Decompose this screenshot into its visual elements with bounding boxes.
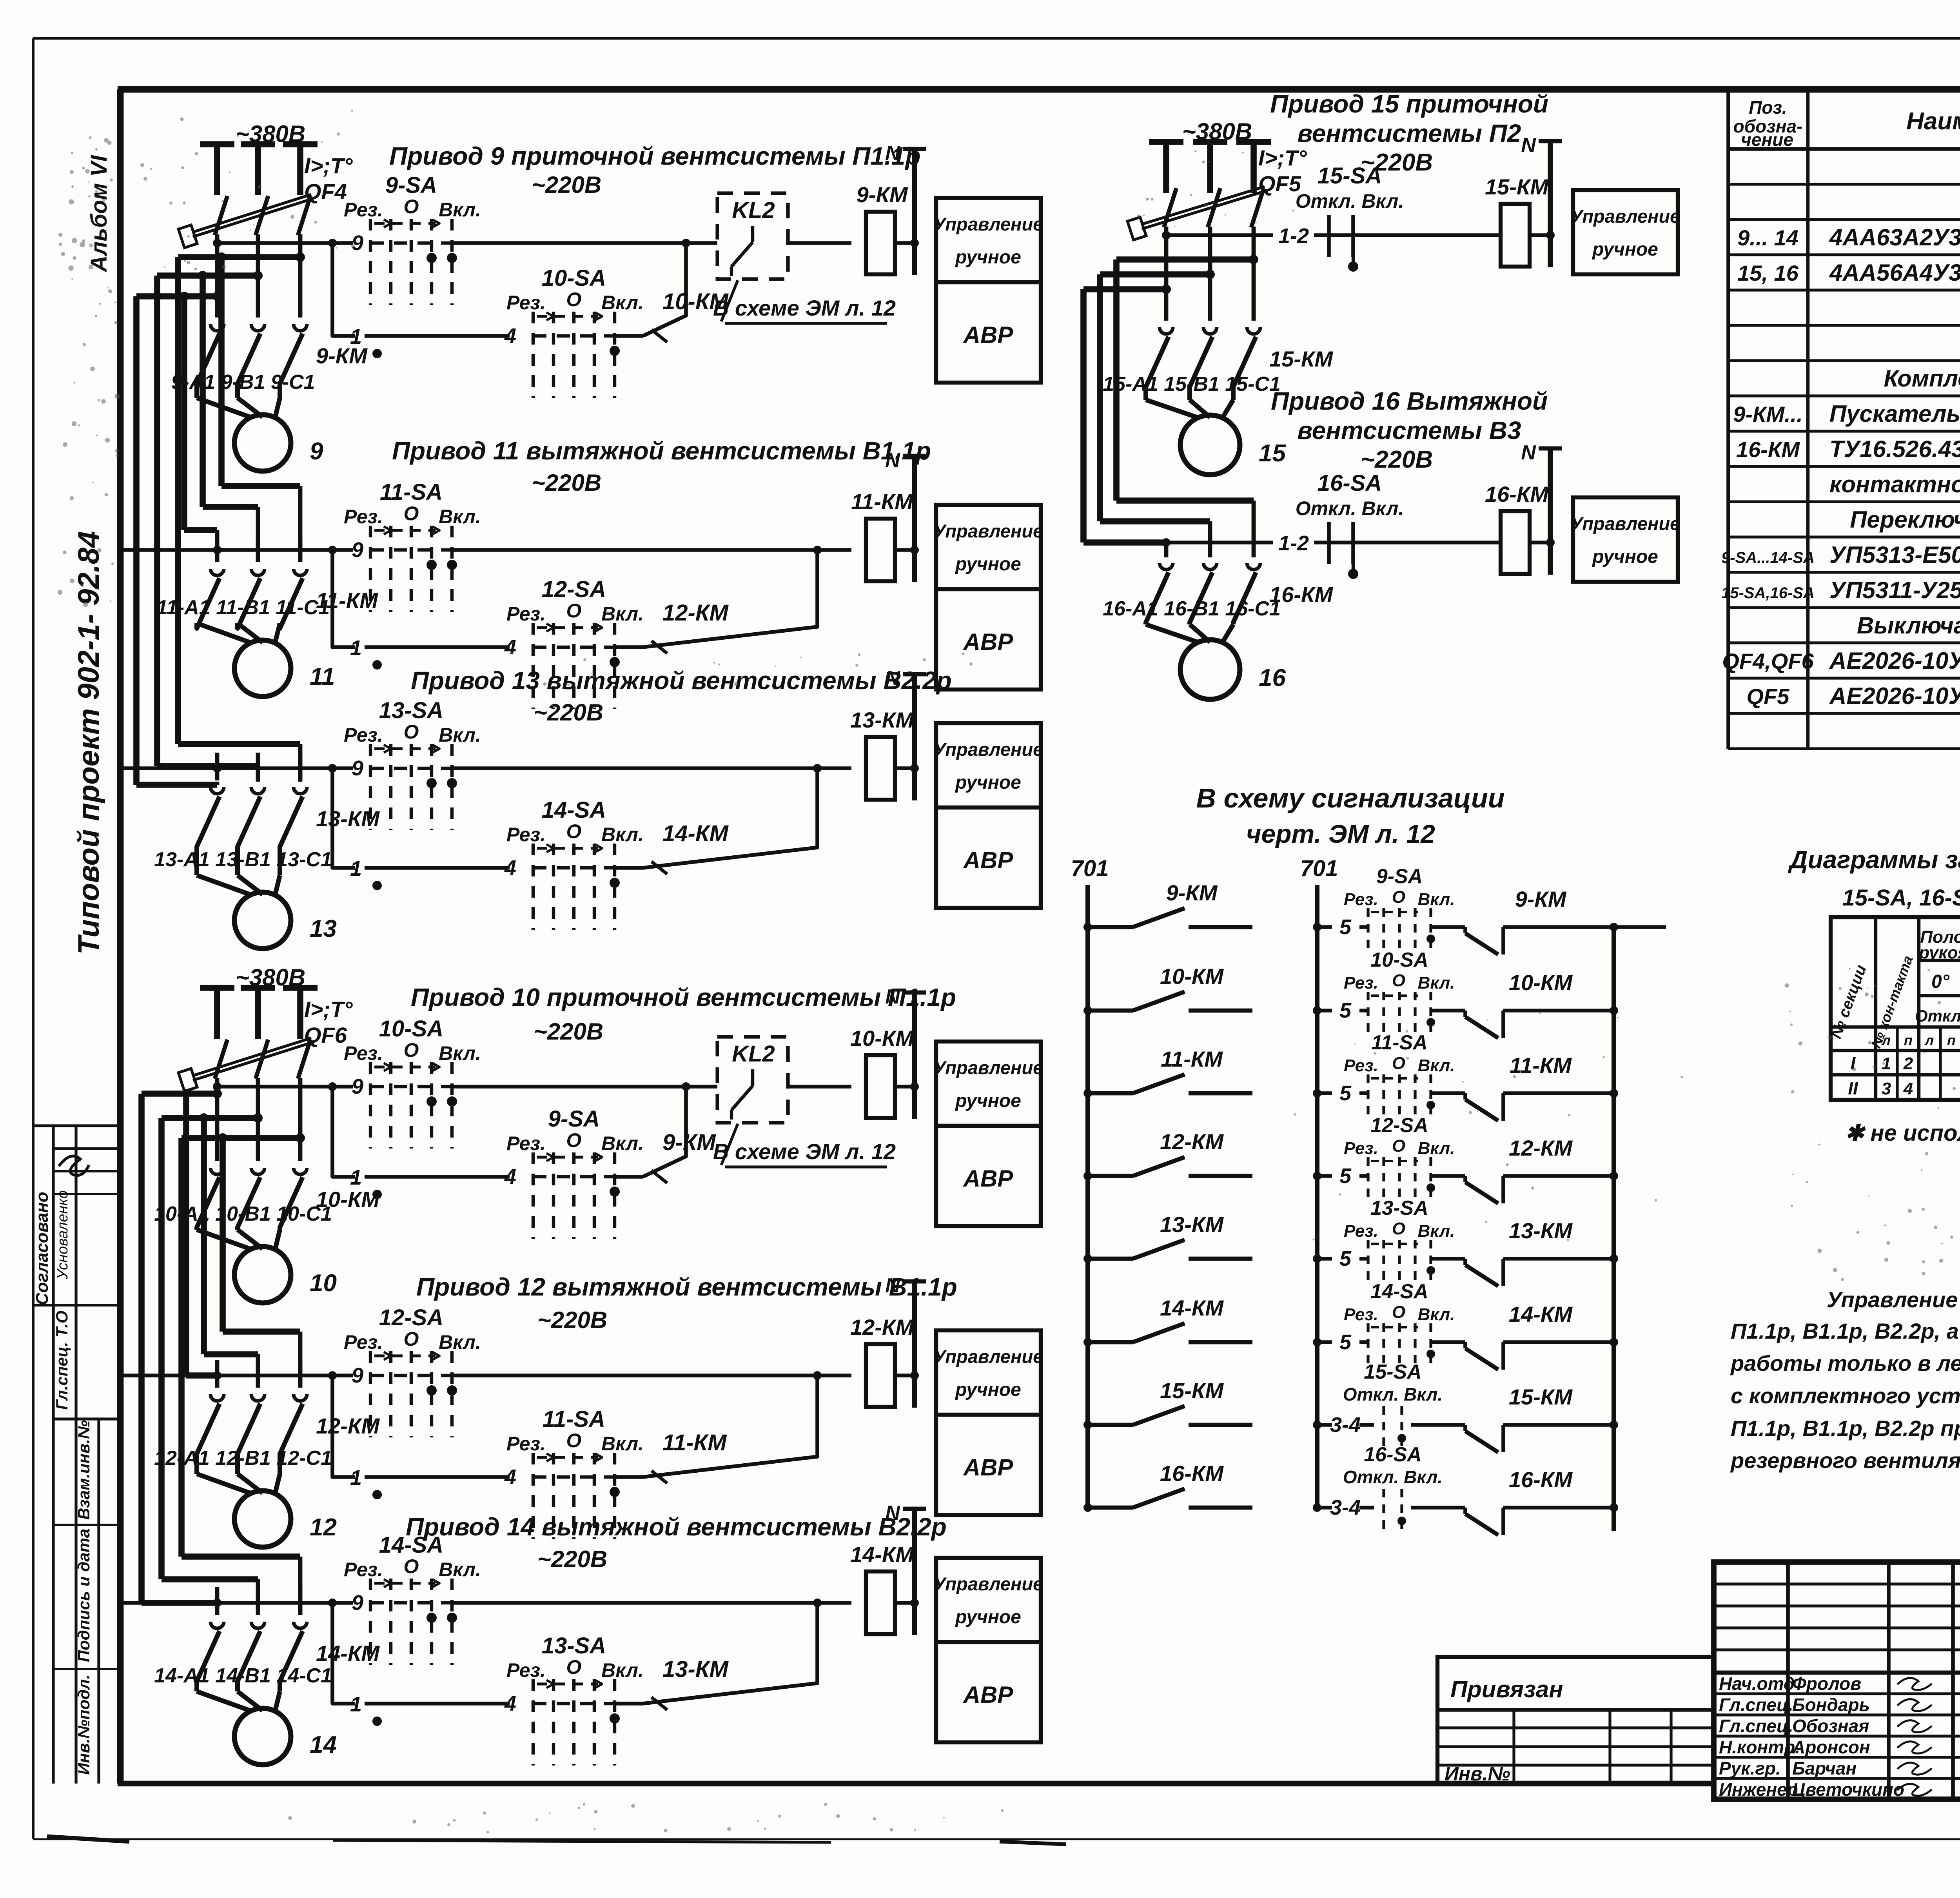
svg-text:Рез.: Рез. <box>506 292 546 314</box>
neutral bus N <box>885 667 926 800</box>
diagram table 15-SA 16-SA <box>1828 917 1960 1100</box>
svg-text:15-SA,16-SA: 15-SA,16-SA <box>1721 584 1815 602</box>
svg-text:9-КМ...: 9-КМ... <box>1733 402 1803 426</box>
wire <box>256 753 260 780</box>
svg-text:9: 9 <box>352 1364 363 1387</box>
wire <box>452 766 851 770</box>
wire <box>452 1601 851 1605</box>
svg-text:9-КМ: 9-КМ <box>662 1130 716 1155</box>
svg-text:11-КМ: 11-КМ <box>1161 1047 1223 1071</box>
contactor 12-КМ main contacts <box>197 1394 380 1474</box>
svg-text:Управление: Управление <box>933 1057 1044 1078</box>
svg-text:9: 9 <box>352 538 363 562</box>
svg-text:5: 5 <box>1339 1247 1352 1270</box>
svg-text:QF5: QF5 <box>1747 684 1790 709</box>
motor 10 <box>197 1230 337 1303</box>
wire <box>452 548 851 552</box>
svg-text:Цветочкино: Цветочкино <box>1792 1779 1904 1800</box>
svg-text:Согласовано: Согласовано <box>33 1192 52 1305</box>
reserve bus bundle drives 10-12-14 <box>142 1089 305 1615</box>
control mode box drive 15 <box>1570 190 1681 274</box>
svg-text:Откл. Вкл.: Откл. Вкл. <box>1343 1467 1443 1487</box>
svg-text:Управление: Управление <box>933 521 1044 541</box>
svg-text:Рез.: Рез. <box>506 1433 546 1455</box>
signal rung 9 <box>1313 915 1352 939</box>
svg-text:Привод 9 приточной вентсистемы: Привод 9 приточной вентсистемы П1.1р <box>389 142 920 170</box>
svg-text:I>;T°: I>;T° <box>304 997 353 1022</box>
neutral bus N <box>1521 134 1562 267</box>
svg-text:Вкл.: Вкл. <box>601 292 644 314</box>
svg-text:Вкл.: Вкл. <box>1418 890 1455 909</box>
svg-text:Альбом VI: Альбом VI <box>86 154 112 272</box>
motor 13 <box>197 875 337 949</box>
note В схеме ЭМ л.12 <box>713 280 896 323</box>
svg-text:15-КМ: 15-КМ <box>1485 174 1549 199</box>
svg-text:Вкл.: Вкл. <box>439 199 481 221</box>
svg-text:ручное: ручное <box>955 772 1021 793</box>
wire <box>895 1601 915 1605</box>
svg-text:N: N <box>885 1502 900 1524</box>
svg-text:~220В: ~220В <box>532 470 601 496</box>
signal contact 11-КМ <box>1083 1047 1252 1098</box>
svg-text:Рез.: Рез. <box>1344 1221 1378 1241</box>
svg-text:12-КМ: 12-КМ <box>662 600 729 626</box>
svg-text:11-А1 11-В1 11-С1: 11-А1 11-В1 11-С1 <box>156 596 330 619</box>
contactor 9-КМ main contacts <box>197 324 368 398</box>
wire <box>1252 227 1256 321</box>
svg-text:✱ не используется: ✱ не используется <box>1845 1120 1960 1146</box>
control mode boxes drive 9 <box>933 198 1044 383</box>
svg-text:Привязан: Привязан <box>1450 1676 1563 1702</box>
svg-text:Управление: Управление <box>1570 206 1681 227</box>
signal selector 13-SA <box>1344 1197 1455 1286</box>
svg-text:Рез.: Рез. <box>1344 973 1378 993</box>
signal selector 10-SA <box>1344 949 1455 1038</box>
svg-text:4: 4 <box>504 635 516 659</box>
signal aux contact 10-КМ <box>1450 970 1618 1038</box>
svg-text:N: N <box>1521 134 1536 157</box>
svg-text:Управление: Управление <box>933 1573 1044 1594</box>
svg-text:В схему сигнализации: В схему сигнализации <box>1196 783 1504 813</box>
scan artifact strokes <box>47 1836 1066 1844</box>
svg-text:15-КМ: 15-КМ <box>1160 1378 1224 1403</box>
svg-text:П1.1р, В1.1р, В2.2р предусмот: П1.1р, В1.1р, В2.2р предусмотрено автома… <box>1731 1416 1960 1441</box>
svg-text:12-КМ: 12-КМ <box>316 1414 380 1438</box>
wire <box>215 534 220 562</box>
contactor coil 10-КМ <box>850 1026 914 1118</box>
svg-text:О: О <box>566 1129 582 1151</box>
auxiliary contact 14-КМ <box>615 764 822 874</box>
svg-text:9: 9 <box>352 757 363 780</box>
svg-text:11-SA: 11-SA <box>1371 1031 1428 1054</box>
svg-text:Вкл.: Вкл. <box>601 1433 644 1455</box>
contactor coil 9-КМ <box>857 182 908 274</box>
svg-text:ТУ16.526.437-78, с приставкой: ТУ16.526.437-78, с приставкой <box>1829 436 1960 462</box>
attachment table Привязан <box>1437 1657 1714 1785</box>
svg-text:9-SA: 9-SA <box>1376 865 1423 888</box>
switch 16-SA <box>1296 470 1501 579</box>
svg-text:ручное: ручное <box>955 1091 1021 1111</box>
signal rung 16 <box>1313 1496 1361 1519</box>
contactor 14-КМ main contacts <box>197 1622 380 1691</box>
signal contact 12-КМ <box>1083 1129 1252 1180</box>
svg-text:13-КМ: 13-КМ <box>662 1657 729 1682</box>
svg-text:вентсистемы П2: вентсистемы П2 <box>1298 119 1521 147</box>
svg-text:13-SA: 13-SA <box>379 698 443 723</box>
svg-text:Рез.: Рез. <box>1344 1056 1378 1075</box>
reserve bus bundle drives 15-16 <box>1083 255 1258 557</box>
svg-text:14-А1 14-В1 14-С1: 14-А1 14-В1 14-С1 <box>154 1664 332 1687</box>
svg-text:QF4: QF4 <box>304 179 347 204</box>
svg-text:3-4: 3-4 <box>1330 1413 1361 1437</box>
wire <box>895 548 915 552</box>
svg-text:Рез.: Рез. <box>506 824 546 846</box>
svg-text:N: N <box>885 985 900 1008</box>
svg-text:10-КМ: 10-КМ <box>1160 964 1224 989</box>
wire to lower rung <box>332 768 355 868</box>
svg-text:13-КМ: 13-КМ <box>850 708 914 732</box>
signal selector 15-SA <box>1343 1361 1450 1448</box>
svg-text:5: 5 <box>1339 999 1352 1022</box>
wire <box>365 334 510 338</box>
svg-text:Бондарь: Бондарь <box>1792 1695 1870 1715</box>
wire <box>895 1085 915 1089</box>
wire <box>256 234 260 318</box>
svg-text:1-2: 1-2 <box>1278 532 1309 555</box>
svg-text:1: 1 <box>350 857 362 880</box>
neutral bus N <box>885 449 926 582</box>
svg-text:П1.1р, В1.1р, В2.2р, а также с: П1.1р, В1.1р, В2.2р, а также системами П… <box>1731 1319 1960 1343</box>
svg-text:ручное: ручное <box>955 1607 1021 1628</box>
svg-text:9... 14: 9... 14 <box>1737 225 1798 250</box>
svg-text:4: 4 <box>504 1692 516 1715</box>
signal contact 16-КМ <box>1083 1461 1252 1512</box>
selector switch 13-SA <box>344 698 481 830</box>
svg-text:QF5: QF5 <box>1258 171 1301 196</box>
selector switch 11-SA (partner) <box>506 1406 727 1539</box>
svg-text:14-КМ: 14-КМ <box>1160 1296 1224 1320</box>
wire to lower rung <box>332 243 355 336</box>
wire <box>788 1085 851 1089</box>
contactor coil 15-КМ <box>1485 174 1549 267</box>
note В схеме ЭМ л.12 <box>713 1124 896 1167</box>
svg-text:О: О <box>404 721 419 743</box>
svg-text:Вкл.: Вкл. <box>439 724 481 746</box>
control mode boxes drive 13 <box>933 723 1044 908</box>
svg-text:I>;T°: I>;T° <box>1258 145 1307 170</box>
svg-text:14-КМ: 14-КМ <box>316 1641 380 1666</box>
svg-text:Привод 12 вытяжной вентсистемы: Привод 12 вытяжной вентсистемы В1.1р <box>416 1273 957 1301</box>
neutral bus N <box>885 142 926 275</box>
wire <box>256 534 260 562</box>
wire <box>452 1374 851 1377</box>
reserve bus bundle drives 9-11-13 <box>136 252 305 785</box>
svg-text:9-КМ: 9-КМ <box>857 182 908 207</box>
signal contact 10-КМ <box>1083 964 1252 1015</box>
svg-text:13-КМ: 13-КМ <box>1160 1212 1224 1237</box>
wire <box>365 866 510 870</box>
svg-text:вентсистемы В3: вентсистемы В3 <box>1298 416 1521 445</box>
svg-text:14-SA: 14-SA <box>379 1532 443 1558</box>
svg-text:9-КМ: 9-КМ <box>316 343 368 368</box>
left stamp column grid <box>33 1126 120 1784</box>
svg-text:п: п <box>1904 1032 1913 1048</box>
svg-text:~220В: ~220В <box>537 1307 607 1333</box>
svg-text:В схеме ЭМ л. 12: В схеме ЭМ л. 12 <box>713 1139 896 1164</box>
interlock relay contact KL2 <box>717 1037 788 1123</box>
contactor 13-КМ main contacts <box>197 787 380 875</box>
svg-text:Типовой проект 902-1- 92.84: Типовой проект 902-1- 92.84 <box>72 531 105 955</box>
contactor coil 13-КМ <box>850 708 914 800</box>
wire <box>1530 233 1550 237</box>
svg-text:16-КМ: 16-КМ <box>1509 1467 1573 1492</box>
svg-text:ручное: ручное <box>955 1379 1021 1400</box>
svg-text:УП5313-Е50У3: УП5313-Е50У3 <box>1829 542 1960 568</box>
svg-text:10-SA: 10-SA <box>542 265 606 291</box>
wire <box>256 1360 260 1388</box>
contactor 16-КМ main contacts <box>1146 563 1333 624</box>
wire <box>365 1702 510 1706</box>
signal selector 14-SA <box>1344 1280 1455 1370</box>
svg-text:Рук.гр.: Рук.гр. <box>1719 1758 1781 1778</box>
svg-text:15-А1 15-В1 15-С1: 15-А1 15-В1 15-С1 <box>1103 373 1281 396</box>
svg-text:11: 11 <box>310 663 335 690</box>
svg-text:5: 5 <box>1339 915 1352 939</box>
svg-text:1: 1 <box>350 1466 362 1490</box>
svg-text:Вкл.: Вкл. <box>439 506 481 528</box>
svg-text:АЕ2026-10У3, Iр6,3А: АЕ2026-10У3, Iр6,3А <box>1829 648 1960 674</box>
wire <box>365 1175 510 1179</box>
svg-text:14-КМ: 14-КМ <box>662 821 729 846</box>
svg-text:15-SA: 15-SA <box>1318 163 1382 189</box>
wire <box>452 241 717 245</box>
wire <box>215 1078 220 1161</box>
svg-text:О: О <box>1392 1136 1405 1156</box>
svg-text:9: 9 <box>352 231 363 255</box>
contactor 11-КМ main contacts <box>197 569 378 628</box>
wire to lower rung <box>332 1603 355 1704</box>
signal contact 13-КМ <box>1083 1212 1252 1263</box>
contactor 15-КМ main contacts <box>1146 327 1333 400</box>
svg-text:Рез.: Рез. <box>506 1659 546 1681</box>
svg-text:12-КМ: 12-КМ <box>850 1315 914 1339</box>
selector switch 10-SA (partner) <box>506 265 729 398</box>
motor 15 <box>1146 400 1286 475</box>
svg-text:~220В: ~220В <box>537 1546 607 1572</box>
title block staff signatures <box>1719 1673 1932 1800</box>
control line 14 <box>120 1591 363 1615</box>
svg-text:Откл. Вкл.: Откл. Вкл. <box>1296 497 1404 519</box>
svg-text:АВР: АВР <box>963 629 1014 655</box>
svg-text:12: 12 <box>310 1514 337 1541</box>
signal rung 15 <box>1313 1413 1361 1437</box>
neutral bus N <box>1521 441 1562 575</box>
svg-text:Рез.: Рез. <box>1344 1305 1378 1324</box>
svg-text:N: N <box>1521 441 1536 464</box>
svg-text:~220В: ~220В <box>534 699 603 726</box>
svg-text:13-КМ: 13-КМ <box>316 806 380 831</box>
svg-text:4: 4 <box>504 324 516 348</box>
svg-text:14-КМ: 14-КМ <box>1509 1302 1573 1326</box>
margin signature squiggle <box>59 1156 89 1175</box>
control line 12 <box>120 1364 363 1387</box>
svg-text:0°: 0° <box>1931 971 1950 992</box>
svg-text:9-КМ: 9-КМ <box>1166 880 1218 905</box>
svg-text:1: 1 <box>350 1166 362 1189</box>
svg-text:рукоятки: рукоятки <box>1918 943 1960 962</box>
signal aux contact 12-КМ <box>1450 1136 1618 1203</box>
wire <box>1164 227 1169 321</box>
svg-text:3: 3 <box>1882 1079 1891 1098</box>
svg-text:9: 9 <box>352 1075 363 1098</box>
selector switch 12-SA <box>344 1305 481 1437</box>
wire <box>298 534 303 562</box>
svg-text:Вкл.: Вкл. <box>601 1132 644 1154</box>
auxiliary contact 12-КМ <box>615 546 822 653</box>
selector switch 13-SA (partner) <box>506 1633 729 1766</box>
svg-text:KL2: KL2 <box>732 198 775 223</box>
svg-text:Наименование: Наименование <box>1906 108 1960 135</box>
svg-text:Вкл.: Вкл. <box>601 603 644 625</box>
svg-text:13-КМ: 13-КМ <box>1509 1218 1573 1243</box>
svg-text:черт. ЭМ л. 12: черт. ЭМ л. 12 <box>1246 819 1435 848</box>
svg-text:11-КМ: 11-КМ <box>662 1430 727 1455</box>
svg-text:Управление: Управление <box>1570 513 1681 534</box>
svg-text:Взам.инв.№: Взам.инв.№ <box>74 1420 93 1520</box>
svg-text:16-SA: 16-SA <box>1364 1443 1421 1466</box>
selector switch 10-SA <box>344 1016 481 1149</box>
signal contact 14-КМ <box>1083 1296 1252 1346</box>
svg-text:N: N <box>885 1274 900 1297</box>
svg-text:чение: чение <box>1741 129 1793 150</box>
svg-text:14-SA: 14-SA <box>1370 1280 1428 1303</box>
svg-text:13-А1 13-В1 13-С1: 13-А1 13-В1 13-С1 <box>154 848 332 871</box>
svg-text:Гл.спец.: Гл.спец. <box>1719 1695 1793 1715</box>
switch 15-SA <box>1296 163 1501 272</box>
svg-text:О: О <box>404 503 419 524</box>
svg-text:Привод 13 вытяжной вентсистем: Привод 13 вытяжной вентсистемы В2.2р <box>411 666 952 695</box>
svg-text:15-КМ: 15-КМ <box>1509 1384 1573 1409</box>
svg-text:Инв.№подл.: Инв.№подл. <box>74 1675 93 1775</box>
svg-text:11-SA: 11-SA <box>543 1406 605 1432</box>
svg-text:9-SA...14-SA: 9-SA...14-SA <box>1721 549 1815 566</box>
control mode boxes drive 11 <box>933 505 1044 690</box>
svg-text:10-КМ: 10-КМ <box>662 289 729 314</box>
contactor coil 12-КМ <box>850 1315 914 1407</box>
wire <box>298 1360 303 1388</box>
svg-text:Привод 16 Вытяжной: Привод 16 Вытяжной <box>1271 387 1548 415</box>
wire <box>1530 541 1550 544</box>
auxiliary contact 9-КМ <box>615 1082 690 1183</box>
svg-text:Рез.: Рез. <box>344 506 383 528</box>
svg-text:13-SA: 13-SA <box>1370 1197 1428 1219</box>
signal aux contact 13-КМ <box>1450 1218 1618 1286</box>
drive 15 title <box>1270 90 1548 176</box>
svg-text:2: 2 <box>1903 1054 1913 1073</box>
svg-text:QF6: QF6 <box>304 1023 347 1047</box>
svg-text:Рез.: Рез. <box>344 1559 383 1580</box>
svg-text:Аронсон: Аронсон <box>1792 1737 1870 1757</box>
signal selector 12-SA <box>1344 1114 1455 1203</box>
contactor 10-КМ main contacts <box>197 1168 380 1230</box>
drive 13 title <box>411 666 952 726</box>
selector switch 12-SA (partner) <box>506 577 729 709</box>
svg-text:II: II <box>1848 1078 1858 1098</box>
selector switch 14-SA (partner) <box>506 797 729 930</box>
svg-text:12-КМ: 12-КМ <box>1160 1129 1224 1154</box>
svg-text:4АА63А2У3: 4АА63А2У3 <box>1829 224 1960 250</box>
wire <box>895 1374 915 1377</box>
svg-text:10-SA: 10-SA <box>379 1016 443 1042</box>
svg-text:О: О <box>1392 887 1405 907</box>
signal section title <box>1196 783 1504 848</box>
svg-text:О: О <box>566 600 582 622</box>
signal rung 14 <box>1313 1330 1352 1354</box>
svg-text:11-SA: 11-SA <box>380 479 443 505</box>
control mode boxes drive 12 <box>933 1330 1044 1515</box>
drive 14 title <box>406 1513 947 1572</box>
circuit breaker QF5 <box>1127 145 1307 240</box>
svg-text:О: О <box>404 1039 419 1061</box>
wire <box>298 1587 303 1615</box>
svg-text:л: л <box>1924 1032 1934 1048</box>
svg-text:Вкл.: Вкл. <box>601 824 644 846</box>
svg-text:701: 701 <box>1300 856 1338 881</box>
signal aux contact 9-КМ <box>1450 887 1618 954</box>
interlock relay contact KL2 <box>717 193 788 279</box>
svg-text:16-КМ: 16-КМ <box>1485 482 1549 506</box>
svg-text:О: О <box>566 289 582 310</box>
wire <box>1208 227 1212 321</box>
supply ~380V terminals drive 10 <box>200 964 318 1039</box>
svg-text:Привод 15 приточной: Привод 15 приточной <box>1270 90 1548 118</box>
supply ~380V terminals drive 9 <box>200 121 318 195</box>
wire <box>298 753 303 780</box>
svg-text:5: 5 <box>1339 1164 1352 1188</box>
signal bus 701 right <box>1300 856 1338 1508</box>
neutral bus N <box>885 985 926 1119</box>
wire to lower rung <box>332 1375 355 1477</box>
svg-text:АВР: АВР <box>963 1165 1014 1192</box>
signal bus 701 left <box>1071 856 1109 1508</box>
explanatory text <box>1730 1287 1960 1473</box>
svg-text:Нач.отд: Нач.отд <box>1719 1673 1795 1694</box>
svg-text:14-КМ: 14-КМ <box>850 1542 914 1567</box>
auxiliary contact 11-КМ <box>615 1371 822 1483</box>
wire <box>298 1078 303 1161</box>
signal rung 13 <box>1313 1247 1352 1270</box>
auxiliary contact 13-КМ <box>615 1599 822 1710</box>
svg-text:Пускатель ПМЛ-110104, U~220В,: Пускатель ПМЛ-110104, U~220В, <box>1829 401 1960 427</box>
svg-text:Выключатель, ТУ 16.522.064-82: Выключатель, ТУ 16.522.064-82 <box>1857 612 1960 639</box>
svg-text:Управление: Управление <box>933 739 1044 760</box>
control mode box drive 16 <box>1570 497 1681 582</box>
wire <box>895 241 915 245</box>
svg-text:16-А1 16-В1 16-С1: 16-А1 16-В1 16-С1 <box>1103 597 1281 620</box>
svg-text:3-4: 3-4 <box>1330 1496 1361 1519</box>
wire <box>215 1360 220 1388</box>
svg-text:АВР: АВР <box>963 1682 1014 1708</box>
svg-text:4: 4 <box>504 1165 516 1189</box>
svg-text:Рез.: Рез. <box>344 1331 383 1353</box>
svg-text:Н.контр.: Н.контр. <box>1719 1737 1800 1757</box>
svg-text:Комплектное устройство: Комплектное устройство <box>1884 365 1960 392</box>
svg-text:701: 701 <box>1071 856 1109 881</box>
svg-text:9-А1 9-В1 9-С1: 9-А1 9-В1 9-С1 <box>171 371 315 394</box>
svg-text:Вкл.: Вкл. <box>1418 1139 1455 1158</box>
svg-text:АЕ2026-10У3, Iр 4А: АЕ2026-10У3, Iр 4А <box>1829 683 1960 709</box>
drive 12 title <box>416 1273 957 1333</box>
